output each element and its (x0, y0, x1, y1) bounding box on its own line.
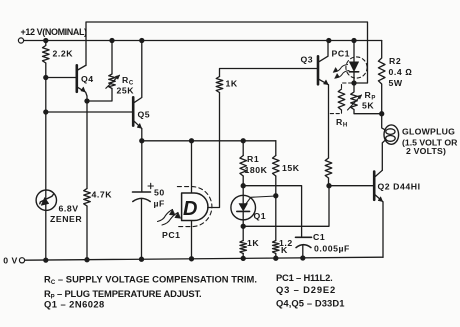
resistor 2.2K (43, 41, 50, 64)
capacitor C1 0.005uF (296, 237, 312, 247)
svg-text:1K: 1K (247, 238, 259, 248)
resistor 1K Q3 base (216, 77, 223, 93)
node Q1 gate on divider (274, 194, 278, 198)
node Q5 base tee (44, 110, 48, 114)
node gnd 50uF (140, 257, 144, 261)
terminal +12V input (18, 38, 23, 43)
svg-text:4.7K: 4.7K (92, 190, 113, 200)
transistor Q5 (133, 41, 142, 141)
dashed package circle PC1 LED (346, 57, 367, 78)
wire 1.2K to ground (275, 254, 277, 259)
wire to Q2 base node (328, 178, 330, 186)
wire Q4 base (46, 77, 77, 79)
svg-text:Q2 D44HI: Q2 D44HI (378, 182, 421, 192)
svg-text:PC1: PC1 (162, 230, 181, 240)
svg-text:Q4: Q4 (81, 74, 94, 84)
resistor RH dashed hold resistor (329, 83, 353, 114)
node rail-LED anode (352, 39, 356, 43)
transistor Q2 D44H1 (374, 170, 383, 257)
node Q4 emitter junction (85, 99, 89, 103)
resistor 15K (273, 156, 280, 177)
svg-text:6.8V: 6.8V (59, 204, 79, 214)
node Q1 cathode tee (241, 224, 245, 228)
node Q5 emitter tee (140, 139, 144, 143)
svg-text:2.2K: 2.2K (53, 49, 74, 59)
node gnd zener (44, 258, 48, 262)
svg-text:Q1 – 2N6028: Q1 – 2N6028 (44, 299, 105, 310)
node Q2 base junction (327, 184, 331, 188)
wire Rp bottom to R2 bottom (354, 110, 382, 114)
wire C1 to ground (302, 245, 304, 258)
svg-text:0 V: 0 V (3, 255, 18, 265)
node gnd 1K (241, 256, 245, 260)
wire PC1 output top (191, 141, 193, 193)
svg-text:+12 V(NOMINAL): +12 V(NOMINAL) (21, 27, 88, 37)
resistor Rp 5K pot (348, 83, 362, 110)
svg-text:Q1: Q1 (254, 211, 267, 221)
node gnd PC1 (190, 257, 194, 261)
node rail-Rc (110, 39, 114, 43)
node R1/C1/anode tee (241, 184, 245, 188)
light arrows out of LED (333, 65, 349, 79)
svg-text:0.005µF: 0.005µF (314, 244, 350, 254)
svg-text:1K: 1K (226, 79, 238, 89)
resistor 1K PUT cathode (240, 241, 247, 254)
PUT Q1 2N6028 (231, 195, 276, 226)
wire PC1 output bottom to ground (191, 221, 193, 259)
svg-text:Q3 – D29E2: Q3 – D29E2 (276, 284, 336, 295)
wire Q3 base (220, 69, 319, 77)
wire +12V rail (24, 40, 382, 42)
svg-text:0.4 Ω: 0.4 Ω (389, 67, 413, 77)
svg-text:µF: µF (154, 199, 165, 209)
terminal 0V (19, 258, 24, 263)
svg-text:PC1 – H11L2.: PC1 – H11L2. (276, 272, 333, 283)
wire ground rail (25, 257, 383, 260)
node Q4 base tee (44, 76, 48, 80)
zener diode 6.8V (36, 190, 56, 210)
resistor R2 0.4 ohm (378, 41, 385, 114)
node LED cathode junction (352, 81, 356, 85)
wire R1 bottom to Q1 anode (242, 176, 244, 195)
node R2/Rp/glowplug junction (380, 112, 384, 116)
svg-text:RH: RH (336, 117, 348, 129)
resistor 1.2K (273, 241, 280, 254)
svg-text:R1: R1 (247, 154, 259, 164)
node R1 tap (241, 139, 245, 143)
wire top line Q4 collector to LED cathode (86, 22, 368, 83)
capacitor 50uF (133, 183, 154, 201)
opto output PC1 schmitt D-shape (177, 187, 212, 227)
wire R1 top (242, 141, 244, 156)
svg-text:15K: 15K (282, 163, 300, 173)
svg-text:PC1: PC1 (332, 49, 351, 59)
transistor Q4 (77, 65, 87, 101)
node gnd C1 (301, 256, 305, 260)
svg-text:Q5: Q5 (138, 110, 151, 120)
svg-text:5K: 5K (362, 101, 374, 111)
node cap 50uF tap (190, 139, 194, 143)
wire Q1 cathode to 1K (242, 226, 244, 240)
wire divider middle (275, 176, 277, 241)
wire 50uF to ground (141, 199, 143, 260)
transistor Q3 (318, 41, 328, 85)
svg-text:D: D (183, 198, 197, 220)
node rail-2.2K (44, 39, 48, 43)
resistor Q3 emitter unlabeled (325, 158, 332, 178)
node rail-Q3 collector (327, 39, 331, 43)
svg-text:180K: 180K (245, 165, 268, 175)
wire PUT supply line y141 (142, 140, 276, 142)
svg-text:R2: R2 (389, 56, 401, 66)
node gnd 4.7K (85, 258, 89, 262)
wire C1 branch y186 (243, 186, 301, 238)
wire 50uF top (141, 141, 143, 192)
svg-text:ZENER: ZENER (50, 214, 82, 224)
wire Q5 base (46, 111, 133, 113)
resistor 4.7K (84, 189, 91, 207)
wire Q4 emitter down to 4.7K (86, 101, 88, 189)
wire Q3 emitter down (328, 85, 330, 158)
resistor R1 180K (240, 156, 247, 177)
wire zener chain x46 (45, 63, 47, 260)
svg-text:Q3: Q3 (301, 55, 314, 65)
wire Q1 cathode to Q2 base node (243, 186, 329, 227)
svg-text:C1: C1 (313, 232, 325, 242)
svg-text:GLOWPLUG: GLOWPLUG (402, 127, 455, 137)
node gnd 1.2K (274, 256, 278, 260)
wire 4.7K to ground (86, 206, 88, 260)
svg-text:K: K (281, 245, 288, 255)
svg-text:2 VOLTS): 2 VOLTS) (406, 146, 446, 156)
svg-text:RC – SUPPLY VOLTAGE COMPENSATI: RC – SUPPLY VOLTAGE COMPENSATION TRIM. (44, 274, 257, 286)
wire Q2 base (329, 185, 374, 187)
svg-text:50: 50 (154, 188, 165, 198)
resistor Rc 25K trimpot (106, 41, 120, 89)
svg-text:25K: 25K (117, 86, 135, 96)
wire 1K to ground (242, 254, 244, 259)
wire Q4 emitter to Rc bottom (87, 89, 112, 102)
wire 15K top (275, 141, 277, 156)
svg-text:Q4,Q5 – D33D1: Q4,Q5 – D33D1 (276, 298, 345, 309)
light arrows into PC1 (158, 210, 181, 226)
svg-text:5W: 5W (389, 78, 403, 88)
glowplug (382, 114, 399, 171)
LED of PC1 (349, 41, 358, 84)
wire PC1 output pin to 1K (208, 93, 220, 208)
node rail-Q5 collector (140, 39, 144, 43)
